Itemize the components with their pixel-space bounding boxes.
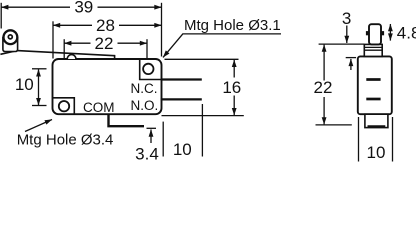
svg-text:39: 39 — [74, 0, 93, 17]
svg-text:Mtg Hole Ø3.1: Mtg Hole Ø3.1 — [184, 17, 281, 34]
svg-text:N.O.: N.O. — [131, 98, 159, 113]
svg-text:3.4: 3.4 — [135, 144, 159, 163]
svg-text:3: 3 — [342, 9, 351, 28]
svg-text:16: 16 — [222, 78, 241, 97]
svg-text:Mtg Hole Ø3.4: Mtg Hole Ø3.4 — [17, 131, 114, 148]
svg-text:28: 28 — [96, 16, 115, 35]
svg-text:4.8: 4.8 — [397, 23, 416, 42]
svg-text:10: 10 — [173, 140, 192, 159]
svg-text:10: 10 — [367, 143, 386, 162]
svg-text:22: 22 — [95, 34, 114, 53]
svg-text:22: 22 — [314, 78, 333, 97]
svg-text:10: 10 — [15, 75, 34, 94]
svg-text:COM: COM — [83, 100, 115, 115]
svg-text:N.C.: N.C. — [131, 81, 158, 96]
